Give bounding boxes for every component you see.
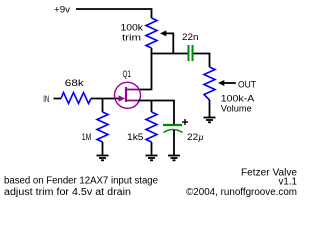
wire 1k5 to ground	[151, 142, 153, 155]
resistor R1 100k trim	[146, 18, 157, 48]
resistor R3 1M	[97, 112, 108, 142]
svg-text:Q1: Q1	[123, 69, 132, 80]
ground below 22u	[168, 156, 180, 161]
wire 22u to ground	[173, 130, 175, 155]
wire 1M to ground	[102, 142, 104, 155]
trim wiper arrow	[160, 30, 173, 53]
OUT arrow to volume wiper	[218, 80, 236, 86]
wire node to 1M top	[102, 99, 104, 113]
svg-text:©2004, runoffgroove.com: ©2004, runoffgroove.com	[186, 187, 297, 198]
capacitor C2 22u electrolytic	[163, 125, 183, 133]
wire source node to 1k5 top	[151, 101, 153, 113]
wire source of Q1 to 22u top	[138, 101, 174, 126]
svg-text:OUT: OUT	[238, 79, 256, 90]
svg-text:IN: IN	[43, 94, 49, 105]
wire +9V rail to trim top	[76, 9, 152, 18]
potentiometer VR1 100k-A volume	[204, 67, 215, 100]
wire 22n right plate to volume pot top	[194, 54, 210, 68]
resistor R2 68k	[61, 93, 91, 104]
wire input stub	[54, 98, 62, 100]
resistor R4 1k5	[146, 112, 157, 142]
svg-text:based on Fender 12AX7 input st: based on Fender 12AX7 input stage	[4, 175, 158, 186]
svg-text:adjust trim for 4.5v at drain: adjust trim for 4.5v at drain	[4, 187, 131, 198]
ground below volume pot	[204, 118, 216, 123]
svg-text:68k: 68k	[65, 78, 84, 89]
svg-text:22µ: 22µ	[187, 132, 204, 143]
wire trim bottom to drain of Q1	[138, 48, 152, 90]
transistor Q1 JFET	[115, 82, 141, 108]
wire volume pot to ground	[209, 100, 211, 117]
svg-text:Volume: Volume	[221, 103, 252, 114]
ground below 1k5	[146, 156, 158, 161]
svg-text:+9v: +9v	[54, 5, 70, 16]
svg-text:1M: 1M	[82, 132, 92, 143]
wire node to 22n left plate	[152, 53, 188, 55]
ground below 1M	[97, 156, 109, 161]
wire 68k to gate of Q1	[91, 98, 119, 100]
svg-text:1k5: 1k5	[127, 132, 144, 143]
capacitor C1 22n	[189, 45, 193, 61]
polarity plus sign of C2	[182, 119, 188, 125]
svg-text:trim: trim	[122, 32, 141, 43]
svg-text:22n: 22n	[182, 32, 199, 43]
